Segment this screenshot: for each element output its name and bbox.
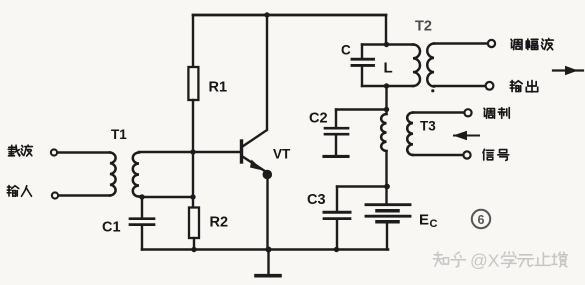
- capacitor C2 top wire: [336, 108, 387, 110]
- svg-text:T1: T1: [111, 127, 127, 142]
- capacitor C tank: [361, 45, 363, 58]
- capacitor C3: [336, 187, 338, 211]
- terminal out bottom: [486, 82, 494, 90]
- wire T3 primary to battery: [385, 151, 387, 203]
- terminal input bottom: [52, 192, 58, 198]
- CJK labels: [7, 39, 553, 197]
- svg-text:VT: VT: [273, 147, 291, 162]
- label 调制 modulation: [484, 108, 495, 118]
- wire top right drop: [385, 15, 387, 45]
- svg-text:C2: C2: [309, 111, 328, 127]
- circled 6: [472, 210, 490, 228]
- wire T2 out top: [434, 42, 488, 44]
- svg-text:C3: C3: [307, 192, 326, 208]
- svg-text:C: C: [430, 218, 438, 230]
- wire tank bottom: [362, 85, 413, 87]
- transistor VT base bar: [240, 141, 243, 162]
- svg-text:R2: R2: [210, 215, 229, 231]
- wire R1 top lead: [192, 15, 194, 67]
- wire T3 out top: [413, 111, 465, 113]
- label 信号 signal: [483, 149, 494, 160]
- transformer T3 primary winding: [381, 114, 386, 151]
- svg-text:L: L: [384, 60, 393, 77]
- wire tank to T3: [385, 86, 387, 114]
- node bias junction: [190, 194, 195, 199]
- node top collector junction: [264, 12, 269, 17]
- transistor VT emitter arrowhead: [250, 160, 263, 171]
- node base junction: [190, 149, 195, 154]
- transformer T1 primary top wire: [58, 151, 111, 153]
- transformer T1 primary winding: [110, 153, 116, 196]
- node C1 junction: [139, 194, 144, 199]
- label 载波 carrier: [8, 145, 20, 156]
- transistor VT collector: [243, 15, 268, 147]
- terminal mod top: [464, 109, 471, 116]
- wire bottom rail: [142, 248, 388, 251]
- node C2 junction: [384, 107, 389, 112]
- terminal input top: [51, 149, 57, 155]
- wire top rail: [193, 14, 386, 17]
- resistor R1: [188, 67, 198, 100]
- transformer T1 primary bottom wire: [59, 194, 111, 196]
- node emitter bottom: [266, 247, 272, 253]
- terminal out top: [488, 40, 495, 47]
- label 输出 output: [510, 81, 522, 92]
- svg-text:E: E: [419, 212, 429, 229]
- wire secondary bottom: [139, 195, 193, 198]
- node tank top: [384, 42, 389, 47]
- transistor VT emitter arrow dot: [263, 170, 273, 180]
- node C3 junction: [384, 184, 390, 190]
- node tank bottom: [384, 83, 389, 88]
- resistor R2: [189, 208, 199, 239]
- capacitor C1: [141, 197, 143, 218]
- svg-text:T3: T3: [420, 119, 436, 134]
- arrow output: [553, 69, 583, 71]
- transistor VT emitter: [243, 157, 266, 172]
- transformer T3 secondary winding: [407, 113, 413, 155]
- wire R2 bottom lead: [193, 238, 195, 250]
- wire emitter down: [266, 177, 268, 250]
- arrow modulation: [454, 135, 479, 137]
- inductor L winding: [413, 45, 420, 87]
- wire base: [139, 151, 241, 153]
- wire R1 bottom to base node to R2: [192, 100, 194, 208]
- svg-text:C1: C1: [102, 220, 121, 236]
- svg-text:C: C: [341, 43, 351, 58]
- watermark 知乎 @X学无止境: [433, 251, 567, 271]
- capacitor C2: [335, 110, 337, 127]
- node R2 bottom: [191, 247, 196, 252]
- svg-text:T2: T2: [415, 19, 432, 35]
- transformer T2 secondary winding: [427, 44, 434, 87]
- node C3 bottom: [334, 247, 339, 252]
- wire T2 out bottom: [434, 85, 486, 87]
- label 调幅波 AM wave: [511, 39, 522, 49]
- transformer T1 secondary winding: [133, 153, 139, 197]
- label 输入 input: [7, 186, 19, 197]
- battery Ec: [385, 86, 387, 114]
- terminal mod bottom: [463, 151, 470, 158]
- ground: [267, 250, 269, 275]
- capacitor C3 wire: [337, 185, 387, 187]
- polarity dot T2: [431, 89, 434, 92]
- wire T3 out bottom: [413, 154, 464, 156]
- wire tank top: [362, 43, 413, 45]
- svg-text:R1: R1: [209, 80, 228, 96]
- svg-text:6: 6: [478, 213, 485, 227]
- svg-text:@X: @X: [470, 251, 500, 271]
